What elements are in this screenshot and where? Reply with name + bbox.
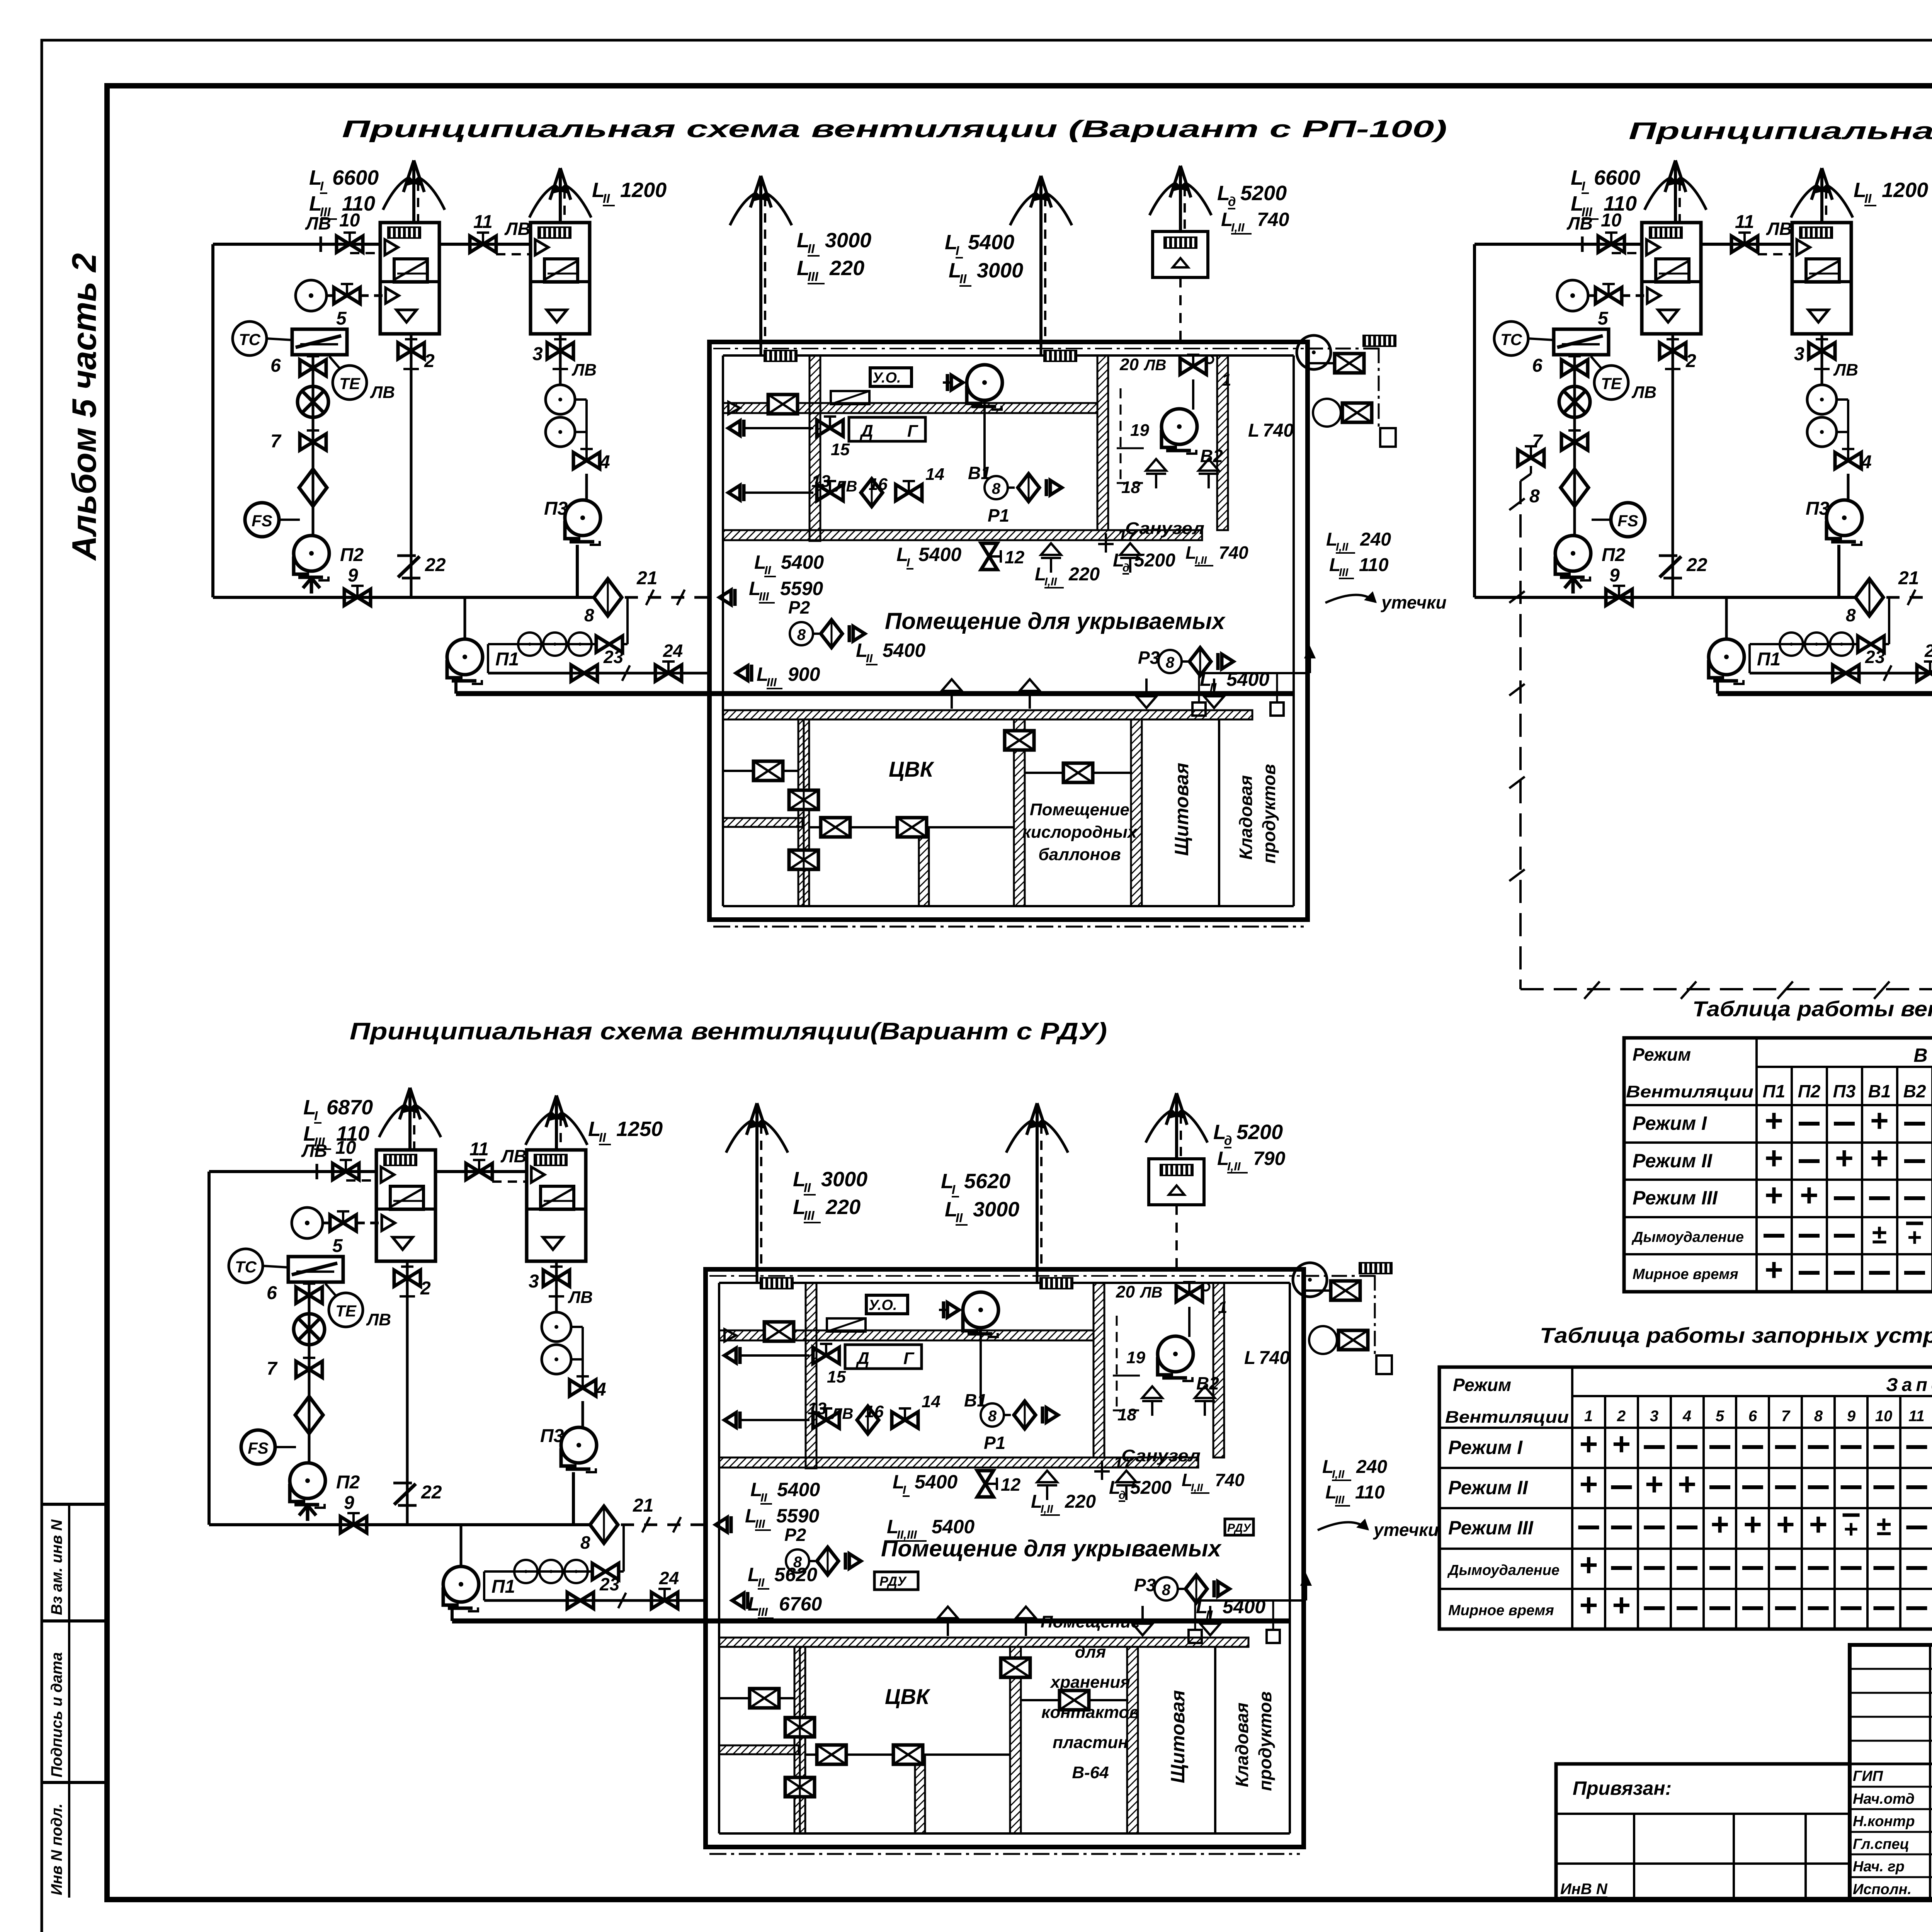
svg-text:+: +: [1612, 1588, 1631, 1623]
svg-text:5400: 5400: [883, 639, 925, 661]
schematic 1: floor funnels: [1041, 543, 1061, 573]
schematic 1: G1 riser dampers: [789, 790, 818, 810]
schematic 1: roof unit box: [1153, 231, 1208, 277]
schematic 1: valve row 15: [728, 420, 744, 437]
svg-text:7: 7: [270, 431, 282, 452]
svg-text:5400: 5400: [915, 1471, 957, 1493]
svg-text:6600: 6600: [332, 166, 379, 189]
schematic 1: thermostat TC: [233, 321, 267, 355]
svg-text:+: +: [1809, 1507, 1828, 1542]
svg-text:110: 110: [1355, 1482, 1385, 1503]
schematic 3: floor boxes: [1189, 1630, 1202, 1643]
svg-text:220: 220: [1065, 1492, 1096, 1512]
svg-text:Режим II: Режим II: [1448, 1477, 1528, 1498]
svg-text:9: 9: [1609, 565, 1620, 586]
svg-text:16: 16: [869, 475, 888, 494]
schematic 2: exhaust chimney 1: [1674, 160, 1677, 223]
schematic 3: damper circle: [294, 1314, 325, 1345]
svg-text:3: 3: [532, 344, 543, 364]
svg-text:продуктов: продуктов: [1255, 1691, 1275, 1791]
svg-text:+: +: [1765, 1178, 1783, 1213]
schematic 1: valve 4: [573, 449, 600, 469]
svg-text:22: 22: [1686, 555, 1708, 575]
svg-text:ЛВ: ЛВ: [568, 1288, 593, 1307]
svg-text:15: 15: [831, 440, 850, 459]
schematic 3: intake chevron: [299, 1505, 316, 1521]
svg-text:+: +: [1870, 1141, 1889, 1176]
svg-text:2: 2: [424, 351, 435, 371]
svg-text:16: 16: [865, 1402, 884, 1421]
schematic 1: sanuzel funnels: [1146, 459, 1166, 488]
svg-text:740: 740: [1257, 209, 1289, 230]
svg-text:15: 15: [827, 1367, 846, 1386]
svg-text:I,II: I,II: [1231, 221, 1245, 234]
schematic 3: silencer circles: [542, 1312, 571, 1342]
schematic 2: air handling unit 2: [1792, 223, 1851, 334]
schematic 1: supply duct band: [723, 403, 1097, 413]
schematic 1: damper circle: [298, 386, 328, 417]
schematic 1: roof-outlet fan right: [1297, 335, 1331, 369]
arrowhead: [747, 1103, 757, 1135]
schematic 3: valve 2: [394, 1267, 420, 1286]
schematic 3: shelter room outer wall: [706, 1269, 1304, 1847]
svg-text:ЦВК: ЦВК: [885, 1684, 931, 1709]
svg-text:Р1: Р1: [984, 1433, 1005, 1453]
schematic 1: valve 12: [981, 543, 1001, 570]
schematic 3: valve 17: [1101, 1461, 1103, 1480]
schematic 2: tick ЛВ: [1581, 236, 1584, 252]
svg-text:II,III: II,III: [897, 1528, 917, 1541]
svg-text:FS: FS: [1617, 512, 1638, 530]
svg-text:Исполн.: Исполн.: [1853, 1881, 1912, 1898]
svg-text:Режим III: Режим III: [1633, 1187, 1718, 1209]
svg-text:8: 8: [988, 1408, 997, 1425]
schematic 1: sanuzel wall right: [1217, 355, 1228, 530]
schematic 2: unit2 drop pipe: [1821, 334, 1823, 385]
svg-text:ИнВ N: ИнВ N: [1560, 1881, 1608, 1898]
schematic 1: lower duct right: [1025, 772, 1132, 774]
svg-text:2: 2: [420, 1278, 431, 1299]
svg-text:III: III: [314, 1135, 325, 1149]
svg-text:ЛВ: ЛВ: [1766, 219, 1792, 239]
svg-text:740: 740: [1215, 1470, 1245, 1490]
svg-text:8: 8: [580, 1532, 590, 1553]
svg-text:III: III: [755, 1517, 765, 1531]
schematic 3: recirculation gauge circle: [292, 1207, 323, 1238]
svg-text:9: 9: [344, 1493, 354, 1513]
svg-text:220: 220: [825, 1196, 861, 1219]
schematic 3: floor funnels: [1037, 1471, 1057, 1500]
schematic 1: valve 10: [337, 233, 363, 252]
svg-text:Режим I: Режим I: [1633, 1112, 1707, 1134]
svg-text:110: 110: [342, 192, 375, 215]
svg-text:Санузел: Санузел: [1125, 519, 1204, 538]
svg-text:7: 7: [1532, 431, 1543, 452]
schematic 1: main suction line: [213, 596, 594, 599]
schematic 1: label L 900: [736, 665, 752, 682]
svg-text:I: I: [314, 1109, 318, 1123]
svg-text:для: для: [1075, 1643, 1106, 1662]
svg-text:6: 6: [1532, 355, 1543, 376]
svg-text:+: +: [1580, 1427, 1598, 1462]
svg-text:±: ±: [1872, 1219, 1887, 1249]
schematic 3: roof unit box: [1149, 1159, 1204, 1205]
svg-text:+: +: [1580, 1588, 1598, 1623]
svg-text:ЦВК: ЦВК: [889, 757, 935, 781]
svg-text:+: +: [1765, 1141, 1783, 1176]
schematic 2: dash loop bottom: [1520, 988, 1932, 990]
schematic 3: main suction line: [209, 1523, 590, 1526]
svg-text:Вентиляции: Вентиляции: [1626, 1082, 1753, 1101]
svg-text:4: 4: [1682, 1408, 1691, 1425]
svg-text:6: 6: [1748, 1408, 1757, 1425]
svg-text:110: 110: [1359, 555, 1389, 575]
svg-text:22: 22: [421, 1482, 442, 1503]
svg-text:I,II: I,II: [1044, 576, 1057, 588]
svg-text:ЛВ: ЛВ: [1833, 361, 1858, 379]
svg-text:П3: П3: [540, 1426, 564, 1446]
svg-text:+: +: [1580, 1548, 1598, 1583]
schematic 1: tick ЛВ: [320, 236, 322, 252]
svg-text:3000: 3000: [973, 1198, 1019, 1221]
schematic 3: valve 3: [543, 1267, 570, 1286]
svg-text:14: 14: [925, 465, 944, 484]
schematic 2: valve 9: [1606, 586, 1632, 605]
schematic 3: duct heater: [288, 1257, 343, 1282]
svg-text:Режим: Режим: [1453, 1375, 1511, 1395]
svg-text:III: III: [1339, 566, 1349, 579]
title block outer box: [1850, 1645, 1932, 1900]
svg-text:II: II: [760, 1491, 768, 1504]
svg-text:Г: Г: [903, 1349, 915, 1368]
schematic 3: lower rooms ceiling band: [719, 1638, 1248, 1647]
schematic 3: floor line funnels: [938, 1607, 958, 1636]
schematic 2: silencer circles: [1807, 385, 1837, 414]
schematic 3: sanuzel funnels: [1142, 1386, 1162, 1416]
schematic 1: fan П1 discharge main: [454, 681, 457, 694]
schematic 1: shelter room outer wall: [709, 342, 1308, 920]
svg-text:I: I: [903, 1483, 906, 1497]
arrowhead: [550, 168, 560, 200]
schematic 2: filter diamond: [1561, 469, 1588, 506]
schematic 3: G1 riser dampers: [785, 1718, 815, 1737]
schematic 1: ceiling grille A: [764, 350, 798, 362]
svg-text:I,II: I,II: [1336, 541, 1349, 553]
schematic 3: РДУ box 2: [1225, 1519, 1253, 1535]
svg-text:П2: П2: [340, 545, 364, 565]
schematic 3: ЦВК duct: [805, 1753, 1010, 1756]
svg-text:240: 240: [1360, 529, 1391, 550]
arrowhead: [750, 176, 761, 207]
svg-text:21: 21: [633, 1495, 653, 1516]
svg-text:3: 3: [529, 1271, 539, 1292]
svg-text:В-64: В-64: [1072, 1763, 1109, 1782]
schematic 1: exhaust chimney 3: [759, 176, 762, 342]
svg-text:П2: П2: [1798, 1081, 1821, 1101]
svg-text:Р3: Р3: [1134, 1575, 1156, 1595]
svg-text:L: L: [1248, 420, 1259, 441]
arrowhead: [1027, 1103, 1037, 1135]
schematic 3: entry triangle mid: [716, 1516, 731, 1533]
svg-text:III: III: [808, 269, 818, 284]
svg-text:д: д: [1119, 1489, 1126, 1502]
schematic 3: supply fan П2: [290, 1463, 325, 1508]
schematic 3: roof-outlet fan right: [1293, 1263, 1327, 1297]
svg-text:контактов: контактов: [1041, 1703, 1139, 1722]
schematic 3: valve row 14: [724, 1412, 740, 1429]
svg-text:+: +: [1800, 1178, 1818, 1213]
svg-text:5590: 5590: [776, 1505, 819, 1527]
svg-text:ЛВ: ЛВ: [504, 219, 531, 239]
svg-text:240: 240: [1356, 1457, 1387, 1477]
svg-text:II: II: [1864, 191, 1872, 206]
schematic 3: thin partition: [1214, 1647, 1216, 1833]
svg-text:У.О.: У.О.: [872, 370, 901, 386]
schematic 3: valve 8: [592, 1563, 619, 1580]
svg-text:хранения: хранения: [1050, 1673, 1130, 1692]
schematic 1: top wall dashdot extension: [1308, 348, 1379, 350]
svg-text:Гл.спец: Гл.спец: [1853, 1836, 1909, 1852]
schematic 3: ceiling grille B: [1039, 1277, 1073, 1289]
svg-text:±: ±: [1876, 1511, 1891, 1541]
schematic 3: vertical damper mid: [1001, 1658, 1030, 1677]
svg-text:П1: П1: [1763, 1081, 1786, 1101]
schematic 3: left riser: [207, 1172, 211, 1525]
svg-text:В2: В2: [1903, 1081, 1926, 1101]
schematic 3: partition G1: [794, 1647, 805, 1833]
svg-text:Принципиальная схема вентил: Принципиальная схема вентиляции(Вариант …: [350, 1018, 1107, 1045]
svg-text:24: 24: [1924, 641, 1932, 661]
schematic 2: unit1 drop pipe: [1672, 334, 1674, 597]
schematic 3: heater bank circles: [484, 1570, 593, 1573]
svg-text:Н.контр: Н.контр: [1853, 1813, 1915, 1830]
svg-text:Помещение: Помещение: [1030, 800, 1129, 819]
svg-text:Вентсистемы: Вентсистемы: [1913, 1044, 1932, 1066]
schematic 2: duct heater: [1554, 329, 1609, 355]
schematic 1: exhaust chimney 5: [1179, 166, 1182, 231]
schematic 3: fan П1 discharge main: [451, 1608, 454, 1621]
schematic 1: supply fan П1: [447, 639, 483, 684]
svg-text:I,II: I,II: [1332, 1468, 1345, 1481]
schematic 1: floor slab band: [723, 530, 1202, 540]
arrowhead: [1811, 168, 1822, 200]
svg-text:2: 2: [1617, 1408, 1626, 1425]
schematic 1: left riser: [211, 244, 214, 597]
svg-text:I: I: [1582, 179, 1585, 193]
schematic 3: sanuzel dashed frame: [1116, 1316, 1118, 1406]
svg-text:19: 19: [1126, 1348, 1145, 1367]
svg-text:Режим I: Режим I: [1448, 1437, 1523, 1458]
schematic 1: valve 9: [344, 586, 371, 605]
schematic 1: supply duct line: [213, 243, 380, 246]
schematic 3: small hatched band lower-left: [719, 1745, 799, 1754]
svg-text:21: 21: [636, 568, 657, 588]
schematic 1: supply fan П3: [565, 500, 600, 545]
svg-text:6870: 6870: [327, 1096, 373, 1119]
schematic 3: band left inlet: [724, 1329, 736, 1342]
svg-text:19: 19: [1130, 421, 1149, 440]
schematic 1: sanuzel wall left: [1097, 355, 1108, 530]
svg-text:+: +: [1907, 1223, 1922, 1251]
svg-text:Д: Д: [855, 1349, 869, 1368]
schematic 3: exhaust chimney 2: [555, 1095, 558, 1150]
svg-text:4: 4: [1861, 452, 1872, 473]
schematic 1: partition G3: [1131, 719, 1142, 906]
schematic 1: valve 11 between units: [439, 243, 531, 246]
svg-text:6: 6: [267, 1283, 277, 1303]
schematic 3: filter diamond: [295, 1396, 323, 1434]
schematic 1: floor line funnels: [942, 679, 962, 709]
svg-text:Принципиальная схема венти: Принципиальная схема вентиляции (Вариант…: [1629, 118, 1932, 145]
schematic 2: heater bank circles: [1750, 643, 1859, 645]
svg-text:+: +: [1765, 1103, 1783, 1138]
svg-text:В1: В1: [1868, 1081, 1891, 1101]
svg-text:I: I: [956, 243, 959, 258]
svg-text:8: 8: [1846, 605, 1856, 625]
svg-text:5200: 5200: [1130, 1478, 1172, 1498]
svg-text:1: 1: [1218, 1298, 1227, 1317]
schematic 3: supply fan П3: [561, 1427, 597, 1472]
schematic 3: valve 9: [340, 1513, 367, 1533]
svg-text:Помещение для укрываемых: Помещение для укрываемых: [881, 1536, 1222, 1561]
svg-text:FS: FS: [248, 1439, 269, 1457]
schematic 3: valve 12: [977, 1471, 997, 1497]
schematic 2: sensor TE: [1594, 366, 1628, 400]
schematic 3: supply fan П1: [443, 1566, 479, 1611]
schematic 1: valve 2: [398, 339, 424, 359]
schematic 3: exhaust chimney 5: [1175, 1093, 1178, 1159]
svg-text:17: 17: [1117, 526, 1137, 545]
svg-text:+: +: [1711, 1507, 1729, 1542]
svg-text:I: I: [952, 1182, 956, 1197]
svg-text:1200: 1200: [1882, 179, 1928, 202]
schematic 2: valve 2: [1660, 339, 1686, 359]
schematic 3: valve 4: [570, 1376, 596, 1396]
svg-text:Помещение для укрываемых: Помещение для укрываемых: [885, 608, 1226, 634]
svg-text:Альбом 5 часть 2: Альбом 5 часть 2: [65, 253, 103, 561]
svg-text:II: II: [808, 241, 815, 256]
svg-text:I: I: [320, 179, 324, 193]
svg-text:ГИП: ГИП: [1853, 1768, 1883, 1784]
svg-text:Режим: Режим: [1633, 1044, 1691, 1065]
svg-text:Р2: Р2: [784, 1525, 806, 1545]
schematic 1: band heater: [831, 391, 869, 404]
svg-text:+: +: [1776, 1507, 1795, 1542]
svg-text:1200: 1200: [620, 179, 667, 202]
schematic 1: partition G2: [1014, 719, 1025, 906]
svg-text:III: III: [1582, 205, 1592, 219]
svg-text:5400: 5400: [777, 1479, 820, 1500]
svg-text:Подпись и дата: Подпись и дата: [48, 1652, 65, 1777]
schematic 2: check valve 22: [1659, 554, 1677, 557]
schematic 3: top wall dashdot extension: [1304, 1275, 1375, 1277]
schematic 3: valve row 15: [724, 1347, 740, 1364]
schematic 1: air handling unit 2: [531, 223, 590, 334]
schematic 3: Д Г box: [845, 1345, 922, 1369]
schematic 1: Д Г box: [849, 417, 925, 441]
schematic 3: valve 5: [323, 1222, 330, 1225]
arrowhead: [403, 160, 414, 192]
svg-text:5200: 5200: [1236, 1121, 1283, 1144]
svg-text:5620: 5620: [964, 1170, 1010, 1193]
schematic 2: bypass line with valves 23 24: [1748, 644, 1751, 673]
schematic 2: intake chevron: [1565, 578, 1582, 594]
svg-text:III: III: [759, 590, 769, 603]
svg-text:Дымоудаление: Дымоудаление: [1631, 1229, 1744, 1245]
svg-text:ЛВ: ЛВ: [500, 1146, 527, 1166]
svg-text:+: +: [1870, 1103, 1889, 1138]
svg-text:5: 5: [332, 1236, 343, 1256]
schematic 3: band heater: [827, 1318, 866, 1332]
svg-text:ТЕ: ТЕ: [339, 374, 361, 393]
svg-text:5400: 5400: [918, 544, 961, 565]
svg-text:д: д: [1224, 1133, 1232, 1148]
schematic 3: shelter room inner wall: [719, 1282, 1290, 1284]
table 2: shutoff devices table grid: [1439, 1367, 1932, 1629]
schematic 1: heat exchanger diamond 21: [594, 579, 622, 616]
schematic 1: wall centreline dashdot: [713, 348, 1304, 349]
schematic 1: valve 3: [547, 339, 573, 359]
arrowhead: [546, 1095, 556, 1127]
svg-text:продуктов: продуктов: [1259, 764, 1279, 864]
svg-text:6600: 6600: [1594, 166, 1640, 189]
svg-text:24: 24: [659, 1568, 679, 1588]
svg-text:23: 23: [1865, 647, 1885, 667]
schematic 3: ceiling grille A: [760, 1277, 794, 1289]
schematic 1: air handling unit 1: [380, 223, 439, 334]
svg-text:+: +: [1612, 1427, 1631, 1462]
svg-text:П3: П3: [1806, 498, 1830, 519]
svg-text:утечки: утечки: [1381, 592, 1447, 612]
svg-text:Нач.отд: Нач.отд: [1853, 1791, 1915, 1807]
schematic 1: heater bank circles: [488, 643, 597, 645]
svg-text:8: 8: [1529, 486, 1540, 507]
left margin stamp strip: [43, 1503, 107, 1506]
schematic 2: air handling unit 1: [1642, 223, 1701, 334]
svg-text:Таблица работы вентсистем поре: Таблица работы вентсистем порежимам вент…: [1692, 997, 1932, 1021]
svg-text:ЛВ: ЛВ: [571, 361, 597, 379]
svg-text:+: +: [1844, 1515, 1858, 1543]
svg-text:2: 2: [1685, 351, 1696, 371]
svg-text:Щитовая: Щитовая: [1167, 1690, 1189, 1783]
schematic 1: shelter room inner wall: [723, 354, 1294, 357]
svg-text:д: д: [1228, 194, 1236, 209]
schematic 1: lower rooms ceiling band: [723, 710, 1252, 719]
schematic 1: valve 5: [327, 294, 334, 297]
svg-text:баллонов: баллонов: [1038, 845, 1121, 864]
svg-text:14: 14: [922, 1392, 940, 1411]
svg-text:18: 18: [1121, 478, 1140, 497]
svg-text:ЛВ: ЛВ: [1139, 1284, 1162, 1301]
svg-text:Д: Д: [859, 422, 873, 440]
svg-text:Вентиляции: Вентиляции: [1445, 1408, 1569, 1427]
schematic 1: band left inlet: [728, 402, 740, 414]
svg-text:24: 24: [663, 641, 683, 661]
schematic 3: bypass line with valves 23 24: [483, 1571, 485, 1600]
svg-text:8: 8: [1166, 654, 1175, 671]
schematic 2: valve 8 on loop: [1518, 446, 1544, 466]
schematic 3: exhaust chimney 1: [408, 1088, 412, 1150]
schematic 1: silencer circles: [546, 385, 575, 414]
svg-text:220: 220: [829, 257, 864, 280]
svg-text:+: +: [1678, 1467, 1696, 1502]
schematic 2: supply fan П3: [1827, 500, 1862, 545]
schematic 3: У.О. box: [866, 1295, 908, 1314]
schematic 1: valve 8: [596, 636, 622, 652]
svg-text:FS: FS: [252, 512, 272, 530]
schematic 1: partition wall A: [810, 355, 820, 541]
schematic 3: tick ЛВ: [316, 1164, 318, 1179]
